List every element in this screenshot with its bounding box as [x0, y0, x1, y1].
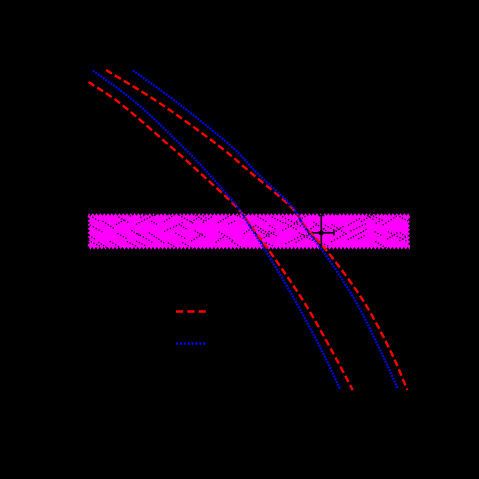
data point error bar horizontal	[309, 230, 334, 235]
magenta constraint band	[88, 213, 411, 250]
black solid curve 1	[91, 76, 346, 390]
data point marker	[319, 230, 324, 235]
legend blue dotted sample	[176, 342, 206, 345]
red dashed curve 2	[106, 70, 407, 390]
red dashed curve 1	[89, 82, 353, 390]
blue dotted curve 2	[133, 71, 398, 390]
black solid curve 2	[120, 70, 403, 390]
blue dotted curve 1	[93, 71, 340, 390]
data point error bar vertical	[318, 216, 324, 247]
band crosshatch dots	[88, 212, 411, 251]
legend red dashed sample	[176, 310, 206, 313]
